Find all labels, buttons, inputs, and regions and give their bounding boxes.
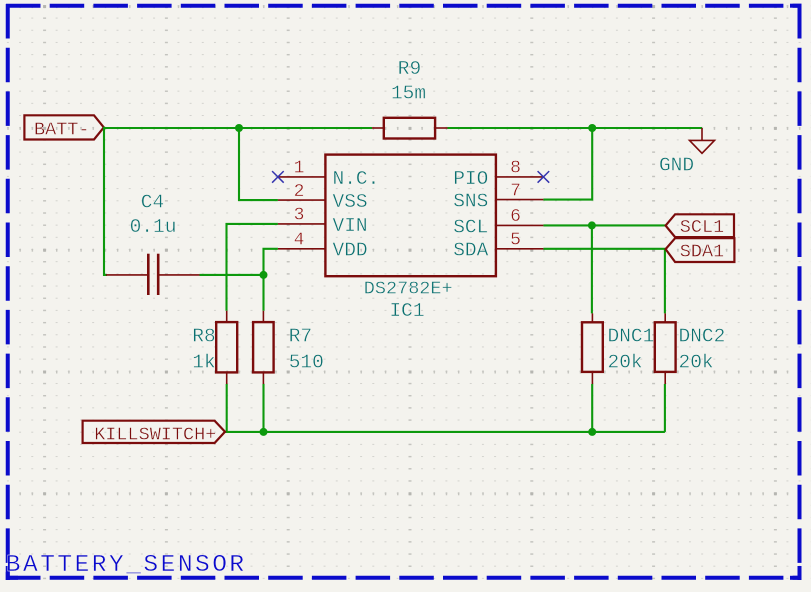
wire DNC1 bottom to net	[591, 384, 593, 432]
svg-text:4: 4	[294, 231, 305, 251]
svg-text:7: 7	[510, 181, 521, 201]
global label KILLSWITCH+	[83, 421, 225, 446]
wire BATT- down to C4	[104, 127, 107, 275]
svg-text:SCL1: SCL1	[680, 217, 724, 238]
wire VIN pin 3 to R8	[227, 224, 278, 311]
svg-text:R8: R8	[192, 326, 215, 348]
pin 7 SNS	[453, 181, 543, 212]
global label SCL1	[666, 214, 734, 238]
svg-text:SDA: SDA	[453, 240, 488, 262]
svg-text:DNC2: DNC2	[679, 325, 726, 347]
junction SCL / DNC1	[588, 221, 596, 229]
ground GND	[690, 128, 715, 153]
wire BATT- to R9	[104, 127, 372, 129]
svg-text:VSS: VSS	[333, 191, 368, 213]
svg-text:BATT-: BATT-	[34, 119, 90, 140]
svg-text:20k: 20k	[608, 352, 643, 374]
junction KILLSWITCH+ / R7	[260, 428, 268, 436]
resistor DNC1	[582, 313, 603, 384]
wire R9 to GND	[448, 127, 703, 129]
junction C4 / VDD / R7	[260, 271, 268, 279]
svg-text:KILLSWITCH+: KILLSWITCH+	[94, 424, 216, 445]
wire KILLSWITCH+ horizontal run	[225, 431, 665, 433]
wire junction to SNS pin 7	[543, 128, 592, 200]
svg-text:15m: 15m	[391, 82, 426, 104]
wire C4 to VDD junction	[200, 274, 264, 276]
svg-text:DNC1: DNC1	[608, 325, 655, 347]
wire R8 bottom to KILLSWITCH+	[226, 384, 228, 432]
wire SDA pin 5 to SDA1 label and down to DNC2	[543, 249, 665, 314]
pin 3 VIN	[278, 206, 368, 237]
junction on main wire at VSS branch	[235, 124, 243, 132]
svg-text:2: 2	[294, 182, 305, 202]
svg-text:5: 5	[510, 231, 521, 251]
wire R7 bottom to net	[262, 384, 264, 432]
svg-text:3: 3	[294, 206, 305, 226]
svg-text:6: 6	[510, 207, 521, 227]
svg-text:SNS: SNS	[453, 191, 488, 213]
svg-text:SCL: SCL	[453, 216, 488, 238]
op-amp IC1 DS2782E+ body	[325, 155, 496, 277]
svg-text:PIO: PIO	[453, 168, 488, 190]
wire DNC2 bottom to net	[664, 384, 666, 432]
svg-text:C4: C4	[141, 192, 164, 214]
pin 8 PIO	[453, 159, 543, 190]
global label SDA1	[666, 238, 735, 262]
svg-text:SDA1: SDA1	[680, 242, 724, 263]
svg-text:GND: GND	[659, 155, 694, 177]
svg-text:1: 1	[294, 159, 305, 179]
wire VDD pin 4 down	[264, 249, 278, 311]
svg-text:R7: R7	[289, 326, 312, 348]
svg-text:20k: 20k	[679, 352, 714, 374]
pin 4 VDD	[278, 231, 368, 262]
svg-text:510: 510	[289, 352, 324, 374]
wire SCL pin 6 to SCL1 label	[543, 224, 665, 226]
svg-text:VIN: VIN	[333, 215, 368, 237]
resistor R9	[372, 118, 448, 139]
wire junction to VSS pin 2	[239, 128, 278, 200]
svg-text:VDD: VDD	[333, 240, 368, 262]
capacitor C4	[106, 254, 200, 295]
resistor R7	[253, 311, 274, 384]
no-connect X on pin 1	[272, 171, 284, 183]
svg-text:1k: 1k	[192, 352, 215, 374]
resistor R8	[216, 311, 237, 384]
wire SCL junction down to DNC1	[591, 225, 593, 313]
junction on main wire at SNS branch	[588, 124, 596, 132]
svg-text:8: 8	[510, 159, 521, 179]
global label BATT-	[24, 115, 103, 140]
no-connect X on pin 8	[538, 171, 550, 183]
svg-text:DS2782E+: DS2782E+	[364, 278, 453, 299]
svg-text:R9: R9	[398, 58, 421, 80]
svg-text:N.C.: N.C.	[333, 168, 380, 190]
resistor DNC2	[655, 313, 676, 384]
pin 2 VSS	[278, 182, 368, 213]
svg-text:IC1: IC1	[389, 300, 424, 322]
pin 6 SCL	[453, 207, 543, 238]
svg-text:0.1u: 0.1u	[130, 216, 177, 238]
junction KILLSWITCH+ / DNC1	[588, 428, 596, 436]
svg-text:BATTERY_SENSOR: BATTERY_SENSOR	[6, 552, 247, 579]
pin 5 SDA	[453, 231, 543, 262]
pin 1 N.C.	[278, 159, 379, 190]
